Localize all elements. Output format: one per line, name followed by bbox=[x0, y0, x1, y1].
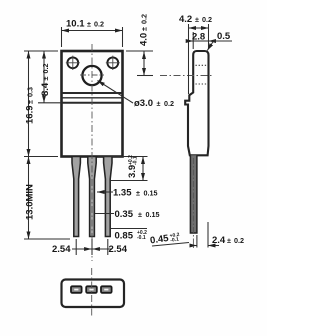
svg-text:0.2: 0.2 bbox=[41, 64, 50, 74]
svg-text:±: ± bbox=[157, 99, 161, 108]
small hole left bbox=[66, 56, 80, 70]
svg-text:4.2: 4.2 bbox=[179, 14, 192, 25]
svg-text:±: ± bbox=[140, 27, 149, 31]
svg-text:1.35: 1.35 bbox=[113, 188, 132, 199]
dim 13.0MIN left bbox=[24, 157, 70, 240]
svg-text:0.15: 0.15 bbox=[144, 189, 158, 198]
bottom view lead 2 bbox=[86, 286, 97, 293]
svg-text:±: ± bbox=[195, 15, 199, 24]
bottom view outline bbox=[62, 280, 125, 308]
dim 0.35 leader bbox=[95, 213, 114, 215]
svg-text:2.8: 2.8 bbox=[192, 32, 205, 43]
svg-text:±: ± bbox=[87, 20, 91, 29]
dim 0.85 leader bbox=[111, 228, 148, 230]
svg-text:4.0: 4.0 bbox=[139, 33, 150, 46]
svg-text:-0.1: -0.1 bbox=[133, 156, 139, 165]
hole center marks bbox=[80, 74, 104, 76]
side view body outline bbox=[185, 51, 208, 155]
dim 8.4 left inner bbox=[38, 51, 62, 103]
svg-text:±: ± bbox=[138, 210, 142, 219]
dim 4.2 side top bbox=[189, 24, 209, 94]
svg-text:2.54: 2.54 bbox=[109, 244, 128, 255]
svg-text:10.1: 10.1 bbox=[66, 19, 85, 30]
svg-text:0.15: 0.15 bbox=[146, 210, 160, 219]
svg-text:2.54: 2.54 bbox=[52, 244, 71, 255]
bottom view centerline bbox=[91, 268, 93, 318]
side view hidden hole lines bbox=[196, 65, 208, 84]
leader 0.5 corner bbox=[207, 41, 232, 51]
leader dia 3.0 bbox=[98, 81, 134, 104]
lead 3 front bbox=[104, 157, 112, 237]
svg-text:0.2: 0.2 bbox=[202, 15, 212, 24]
svg-text:±: ± bbox=[227, 236, 231, 245]
dim 2.4 side bottom bbox=[190, 222, 220, 248]
svg-text:0.3: 0.3 bbox=[26, 87, 35, 97]
lead 2 front bbox=[88, 157, 96, 237]
svg-text:0.85: 0.85 bbox=[115, 231, 134, 242]
svg-text:ø3.0: ø3.0 bbox=[134, 98, 153, 109]
vertical centerline bbox=[91, 44, 93, 261]
front view tab step lines bbox=[62, 93, 123, 103]
svg-text:13.0MIN: 13.0MIN bbox=[25, 184, 36, 220]
svg-text:0.2: 0.2 bbox=[234, 236, 244, 245]
bottom view lead 1 bbox=[71, 286, 82, 293]
svg-text:0.35: 0.35 bbox=[115, 209, 134, 220]
svg-text:8.4: 8.4 bbox=[40, 82, 51, 96]
svg-text:2.4: 2.4 bbox=[212, 235, 226, 246]
front view body outline bbox=[62, 51, 123, 157]
dim 10.1 top bbox=[62, 27, 123, 47]
mounting hole bbox=[82, 66, 101, 85]
svg-text:±: ± bbox=[136, 189, 140, 198]
svg-text:0.2: 0.2 bbox=[94, 20, 104, 29]
svg-text:±: ± bbox=[26, 100, 35, 104]
dim 0.45 lead thickness bbox=[152, 243, 189, 247]
svg-text:±: ± bbox=[41, 77, 50, 81]
svg-text:0.2: 0.2 bbox=[140, 14, 149, 24]
svg-text:-0.1: -0.1 bbox=[170, 237, 180, 244]
small hole right bbox=[106, 56, 120, 70]
dim 16.9 left bbox=[24, 51, 58, 157]
svg-text:0.5: 0.5 bbox=[217, 31, 231, 42]
dim 2.8 side bbox=[188, 32, 215, 49]
svg-text:-0.1: -0.1 bbox=[137, 235, 146, 241]
dim 3.9 right of leads bbox=[98, 157, 148, 181]
svg-text:16.9: 16.9 bbox=[25, 106, 36, 125]
dim 2.54 pitch bbox=[72, 239, 112, 255]
lead 1 front bbox=[72, 157, 80, 237]
svg-text:3.9: 3.9 bbox=[127, 165, 138, 178]
svg-text:0.2: 0.2 bbox=[164, 99, 174, 108]
dim 1.35 leader bbox=[97, 191, 113, 193]
bottom view lead 3 bbox=[101, 286, 112, 293]
side view lead bbox=[190, 155, 197, 233]
dim 4.0 right bbox=[126, 51, 153, 76]
side view hole centerline bbox=[160, 75, 212, 77]
side lead centerline bbox=[192, 158, 194, 248]
